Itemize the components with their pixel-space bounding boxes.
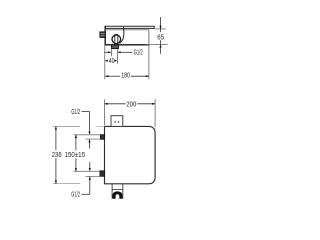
extension lines nipple (105, 45, 149, 79)
dimension 40 (105, 58, 118, 65)
knob (side handle) (100, 32, 105, 38)
G1/2 label bottom-left (71, 162, 91, 199)
svg-text:G1/2: G1/2 (134, 49, 143, 56)
dimension 200 (105, 99, 156, 127)
G1/2 label top view (104, 49, 143, 56)
dimension 150±15 (65, 135, 85, 172)
cartridge circle (112, 35, 121, 44)
svg-text:236: 236 (52, 152, 62, 159)
dimension 236 (52, 126, 105, 183)
G1/2 label top-left (71, 109, 90, 149)
shelf plate (side view) (105, 26, 154, 28)
svg-text:200: 200 (126, 101, 136, 108)
shower bracket outlet (112, 184, 123, 198)
stem (115, 34, 118, 44)
inlet stub bottom (74, 171, 105, 177)
svg-text:40: 40 (109, 58, 115, 65)
lever J-curve (120, 27, 124, 44)
dimension 180 (105, 73, 149, 80)
inlet stub top (74, 135, 105, 140)
dimension 65 (145, 17, 168, 54)
svg-text:G1/2: G1/2 (71, 192, 80, 199)
svg-text:180: 180 (121, 73, 130, 80)
valve body side view (105, 26, 150, 45)
front body (105, 126, 156, 183)
svg-text:150±15: 150±15 (65, 152, 85, 159)
svg-text:G1/2: G1/2 (71, 109, 80, 116)
svg-text:65: 65 (157, 34, 164, 41)
top protrusion (111, 116, 123, 127)
outlet nipple (side view) (112, 45, 119, 49)
